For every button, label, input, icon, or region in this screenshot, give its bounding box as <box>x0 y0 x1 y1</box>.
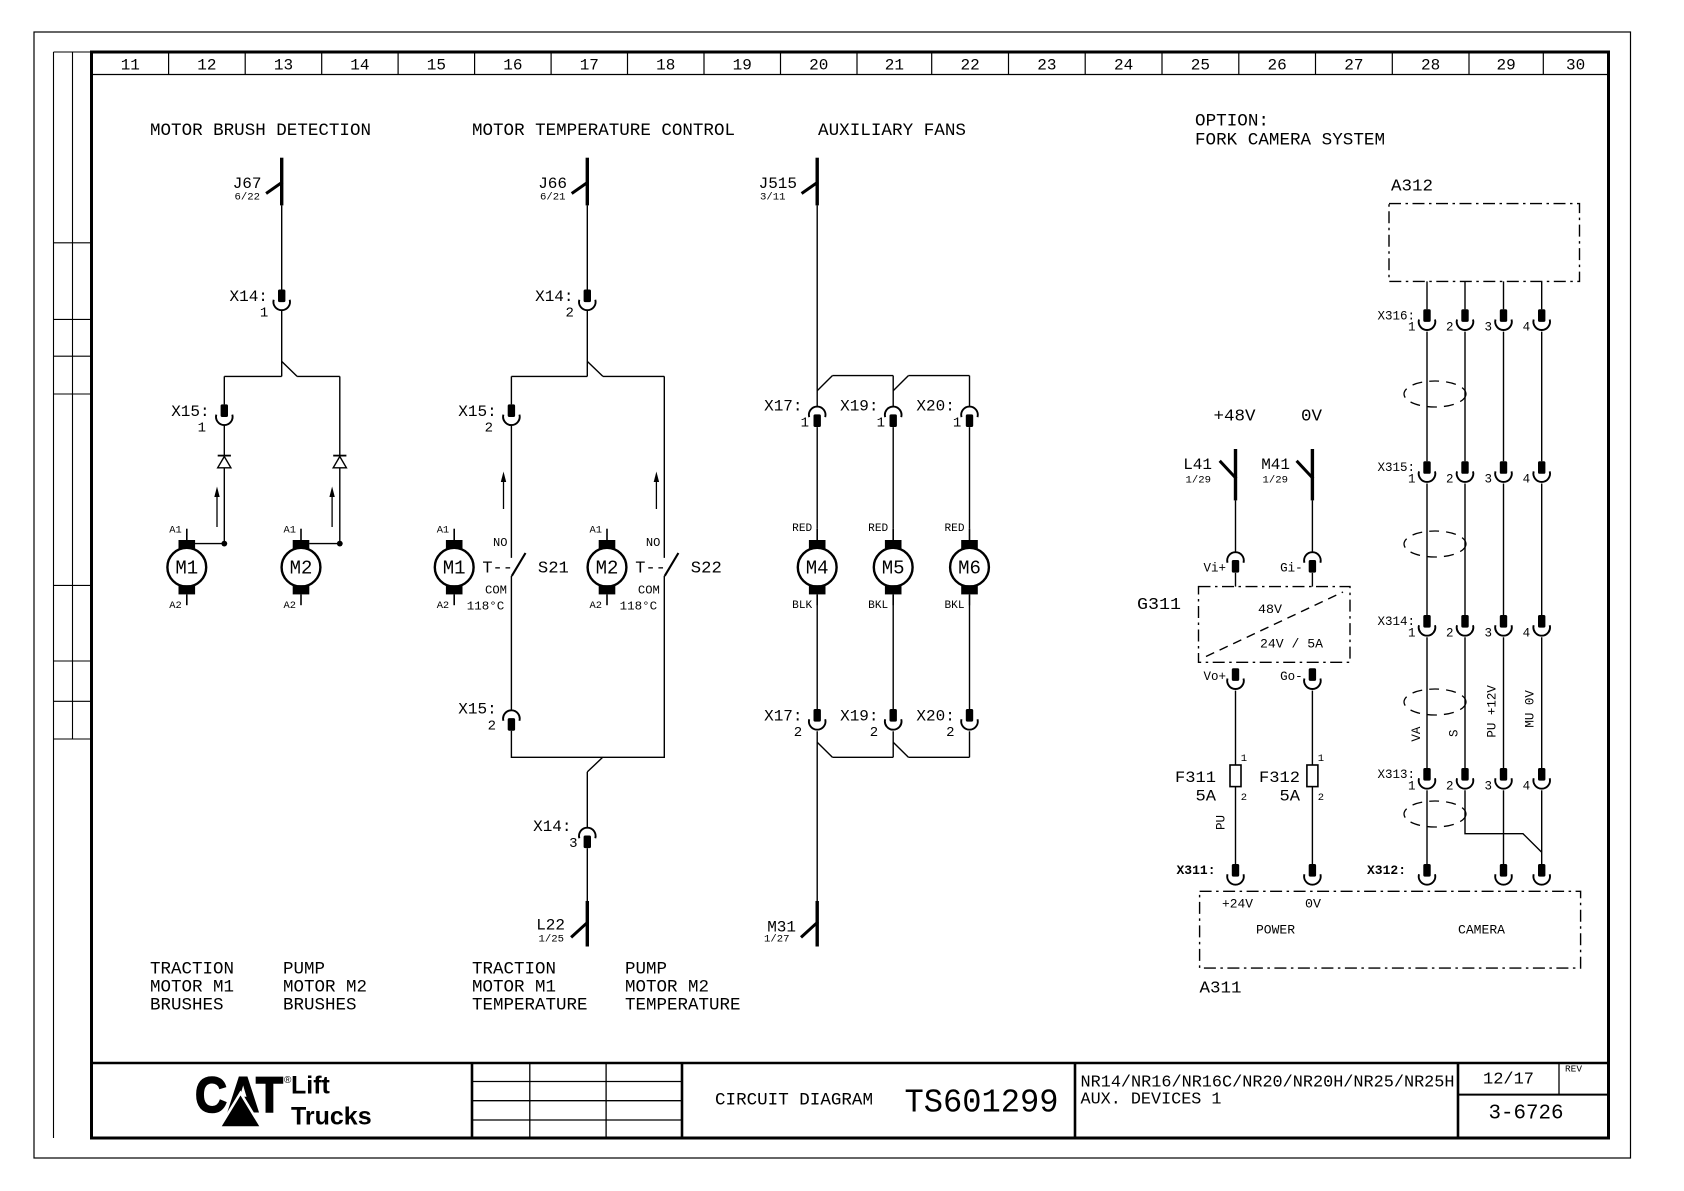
wire VA to X312 <box>1426 790 1428 864</box>
svg-text:A2: A2 <box>437 600 450 612</box>
svg-text:3: 3 <box>1484 473 1492 487</box>
wire fan motor to X17:2 <box>816 605 818 709</box>
wire PU to X312 <box>1503 790 1505 864</box>
diode V2 (M2 branch) <box>333 456 346 468</box>
svg-text:S22: S22 <box>691 559 722 578</box>
motor M1 <box>167 529 206 606</box>
twisted pair mark 3 <box>1404 689 1466 715</box>
svg-text:TEMPERATURE: TEMPERATURE <box>625 996 741 1016</box>
svg-text:FORK CAMERA SYSTEM: FORK CAMERA SYSTEM <box>1195 131 1385 151</box>
svg-text:OPTION:: OPTION: <box>1195 112 1269 132</box>
svg-text:2: 2 <box>794 725 802 741</box>
svg-text:A312: A312 <box>1391 177 1433 196</box>
caption traction motor m1 brushes <box>150 960 234 1016</box>
label X15:2 (top) <box>458 403 496 437</box>
svg-text:14: 14 <box>350 57 369 75</box>
svg-text:J67: J67 <box>233 175 262 193</box>
wire F311 to X311 <box>1235 787 1237 864</box>
dc converter G311 (dash-dot box) <box>1199 587 1351 663</box>
wire fan motor to X20:2 <box>969 605 971 709</box>
fuse F312 <box>1307 765 1318 787</box>
svg-text:PU +12V: PU +12V <box>1486 685 1500 738</box>
wire A312 pin 1 <box>1426 281 1428 309</box>
twisted pair mark 2 <box>1404 531 1466 557</box>
label X19:2 <box>840 707 878 741</box>
connector X315 <box>1419 461 1550 482</box>
svg-text:TS601299: TS601299 <box>905 1085 1059 1122</box>
svg-text:4: 4 <box>1523 779 1531 793</box>
svg-text:2: 2 <box>1446 626 1454 640</box>
svg-text:L41: L41 <box>1183 456 1212 474</box>
svg-text:1: 1 <box>260 306 268 322</box>
section title OPTION: FORK CAMERA SYSTEM <box>1195 112 1385 151</box>
wire A312 pin 4 <box>1541 281 1543 309</box>
wire X314-X313 1 <box>1426 637 1428 768</box>
svg-text:3-6726: 3-6726 <box>1489 1103 1564 1126</box>
label X14:2 <box>535 288 574 322</box>
wire X315-X314 1 <box>1426 484 1428 616</box>
caption pump motor m2 brushes <box>283 960 367 1016</box>
connector Go- <box>1304 668 1321 689</box>
svg-text:0V: 0V <box>1305 898 1322 912</box>
svg-text:MU 0V: MU 0V <box>1524 690 1538 728</box>
current arrow (S22 branch) <box>654 472 659 510</box>
wire branch jog <box>282 361 297 376</box>
wire J515 down to X17:1 <box>816 205 818 406</box>
svg-text:AUX. DEVICES 1: AUX. DEVICES 1 <box>1081 1091 1222 1110</box>
svg-text:S: S <box>1448 729 1462 737</box>
wire M41 to Gi- <box>1311 500 1313 552</box>
connector L22 <box>571 901 588 947</box>
svg-text:X15:: X15: <box>458 403 496 421</box>
wire fan branch 3 down <box>969 376 971 407</box>
wire X316-X315 3 <box>1503 332 1505 462</box>
svg-text:M1: M1 <box>175 558 198 580</box>
connector M31 <box>801 901 818 947</box>
wire X315-X314 2 <box>1464 484 1466 616</box>
svg-text:21: 21 <box>885 57 904 75</box>
wire Gi- to G311 <box>1311 573 1313 587</box>
connector X20:1 <box>961 407 978 427</box>
connector X17:2 <box>809 709 826 730</box>
svg-text:4: 4 <box>1523 321 1531 335</box>
wire left branch down <box>223 376 225 404</box>
svg-text:MOTOR TEMPERATURE CONTROL: MOTOR TEMPERATURE CONTROL <box>472 121 735 141</box>
svg-text:NO: NO <box>646 536 661 550</box>
label X14:1 <box>229 288 268 322</box>
wire X314-X313 2 <box>1464 637 1466 768</box>
column number header row <box>92 52 1608 75</box>
wire Vo+ to F311 <box>1235 691 1237 765</box>
wire X15:2 to S21 <box>510 425 512 558</box>
svg-text:2: 2 <box>565 306 573 322</box>
svg-text:1: 1 <box>1408 626 1416 640</box>
svg-text:4: 4 <box>1523 626 1531 640</box>
svg-text:A1: A1 <box>590 525 603 537</box>
label X20:2 <box>916 707 954 741</box>
wire X17:1 to fan motor <box>816 427 818 529</box>
connector Gi- <box>1304 552 1321 572</box>
svg-text:TRACTION: TRACTION <box>472 960 556 980</box>
current arrow (M2 branch) <box>329 487 334 528</box>
fan motor M6 <box>950 529 989 606</box>
svg-text:A2: A2 <box>590 600 603 612</box>
svg-text:CIRCUIT DIAGRAM: CIRCUIT DIAGRAM <box>715 1090 873 1110</box>
svg-text:G311: G311 <box>1137 595 1181 614</box>
wire rejoin jog <box>587 757 602 772</box>
camera unit A311 (dash-dot box) <box>1200 891 1581 968</box>
connector J515 <box>802 158 818 206</box>
svg-text:24V / 5A: 24V / 5A <box>1260 637 1324 651</box>
svg-text:X15:: X15: <box>171 403 209 421</box>
svg-text:2: 2 <box>1241 792 1247 804</box>
svg-text:+24V: +24V <box>1222 898 1254 912</box>
fan return bus 1 <box>832 756 893 758</box>
svg-text:A1: A1 <box>284 525 297 537</box>
CAT Lift Trucks logo <box>195 1067 372 1131</box>
svg-text:Vi+: Vi+ <box>1203 562 1226 576</box>
label X15:1 <box>171 403 209 437</box>
svg-text:Gi-: Gi- <box>1280 562 1303 576</box>
svg-text:POWER: POWER <box>1256 924 1296 938</box>
thermal switch S21 <box>467 536 569 614</box>
label X15:2 (bottom) <box>458 701 496 735</box>
connector M41 <box>1297 449 1314 500</box>
label X17:1 <box>764 397 809 431</box>
connector X14:3 <box>579 828 596 848</box>
svg-text:M1: M1 <box>443 558 466 580</box>
wire M2 A1 to junction <box>309 543 340 545</box>
svg-text:TEMPERATURE: TEMPERATURE <box>472 996 588 1016</box>
wire X314-X313 3 <box>1503 637 1505 768</box>
wire X15:2 bottom corner <box>511 576 664 757</box>
svg-text:Trucks: Trucks <box>291 1103 372 1131</box>
fuse F311 <box>1230 765 1241 787</box>
svg-text:17: 17 <box>580 57 599 75</box>
svg-text:Vo+: Vo+ <box>1203 670 1226 684</box>
svg-text:A2: A2 <box>284 600 297 612</box>
wire fan motor to X19:2 <box>892 605 894 709</box>
svg-text:3: 3 <box>1484 779 1492 793</box>
wire J67 to X14:1 <box>281 205 283 289</box>
twisted pair mark 4 <box>1404 801 1466 827</box>
junction dot (M2 branch) <box>337 541 343 547</box>
svg-text:X20:: X20: <box>916 397 954 415</box>
wire right branch to S22 <box>663 376 665 558</box>
svg-text:COM: COM <box>638 584 660 598</box>
svg-text:M41: M41 <box>1261 456 1290 474</box>
svg-text:X20:: X20: <box>916 707 954 725</box>
svg-text:22: 22 <box>960 57 979 75</box>
svg-text:A311: A311 <box>1200 978 1242 997</box>
svg-text:13: 13 <box>274 57 293 75</box>
svg-text:118°C: 118°C <box>467 600 505 614</box>
fan return bus 2 <box>908 756 969 758</box>
connector X19:2 <box>885 709 902 730</box>
svg-text:27: 27 <box>1344 57 1363 75</box>
connector X15:2 (top) <box>503 404 520 425</box>
fan motor M4 <box>798 529 837 606</box>
fan bus 1 <box>832 375 893 377</box>
label F311 5A <box>1175 753 1247 805</box>
wire X14:1 down <box>281 310 283 376</box>
svg-text:VA: VA <box>1410 726 1424 742</box>
svg-text:0V: 0V <box>1301 408 1323 427</box>
wire A312 pin 3 <box>1503 281 1505 309</box>
connector X14:2 <box>579 290 596 311</box>
svg-text:48V: 48V <box>1258 603 1283 617</box>
svg-text:6/21: 6/21 <box>540 192 566 204</box>
svg-text:3: 3 <box>1484 321 1492 335</box>
caption traction motor m1 temperature <box>472 960 588 1016</box>
motor M2 (temperature) <box>588 529 627 606</box>
twisted pair mark 1 <box>1404 381 1466 407</box>
svg-text:2: 2 <box>488 718 496 734</box>
wire J66 to X14:2 <box>586 205 588 289</box>
svg-text:CAMERA: CAMERA <box>1458 924 1506 938</box>
svg-text:J66: J66 <box>538 175 567 193</box>
svg-text:BRUSHES: BRUSHES <box>283 996 357 1016</box>
thermal switch S22 <box>620 536 722 614</box>
svg-text:X14:: X14: <box>533 818 571 836</box>
svg-text:20: 20 <box>809 57 828 75</box>
wire to X14:3 <box>586 772 588 828</box>
svg-text:30: 30 <box>1566 57 1585 75</box>
svg-text:29: 29 <box>1497 57 1516 75</box>
svg-text:23: 23 <box>1037 57 1056 75</box>
svg-text:16: 16 <box>503 57 522 75</box>
wire X14:3 to L22 <box>586 848 588 901</box>
svg-text:MOTOR M1: MOTOR M1 <box>150 978 234 998</box>
wire X316-X315 2 <box>1464 332 1466 462</box>
title block grid <box>92 1063 1609 1138</box>
wire X315-X314 4 <box>1541 484 1543 616</box>
svg-text:BLK: BLK <box>792 600 812 612</box>
wire A312 pin 2 <box>1464 281 1466 309</box>
svg-text:3: 3 <box>569 836 577 852</box>
wire L41 to Vi+ <box>1235 500 1237 552</box>
connector X313 <box>1419 768 1550 789</box>
svg-text:A1: A1 <box>437 525 450 537</box>
svg-text:MOTOR M1: MOTOR M1 <box>472 978 556 998</box>
connector X19:1 <box>885 407 902 427</box>
svg-text:Lift: Lift <box>291 1072 331 1100</box>
svg-text:RED: RED <box>868 523 888 535</box>
connector Vo+ <box>1227 668 1244 689</box>
wire X15:1 to diode <box>223 425 225 456</box>
fan bus 2 <box>908 375 969 377</box>
svg-text:X19:: X19: <box>840 707 878 725</box>
connector X14:1 <box>273 290 290 311</box>
wire X14:2 down <box>586 310 588 376</box>
label X313 <box>1377 768 1530 793</box>
svg-text:2: 2 <box>946 725 954 741</box>
wire diode to M2 junction <box>339 468 341 543</box>
svg-text:2: 2 <box>485 420 493 436</box>
current arrow (S21 branch) <box>501 472 506 510</box>
wire branch horizontal <box>224 375 339 377</box>
label X17:2 <box>764 707 802 741</box>
label F312 5A <box>1259 753 1324 805</box>
svg-text:3: 3 <box>1484 626 1492 640</box>
svg-text:4: 4 <box>1523 473 1531 487</box>
svg-text:BKL: BKL <box>868 600 888 612</box>
connector J67 <box>266 158 282 206</box>
diode V1 (M1 branch) <box>218 456 231 468</box>
wire right branch down <box>339 376 341 455</box>
fan motor M5 <box>874 529 913 606</box>
svg-text:PUMP: PUMP <box>283 960 325 980</box>
connector X314 <box>1419 615 1550 636</box>
connector X20:2 <box>961 709 978 730</box>
svg-text:18: 18 <box>656 57 675 75</box>
svg-text:BKL: BKL <box>945 600 965 612</box>
svg-text:11: 11 <box>121 57 140 75</box>
svg-text:M4: M4 <box>806 558 829 580</box>
svg-text:L22: L22 <box>536 917 565 935</box>
svg-text:26: 26 <box>1268 57 1287 75</box>
svg-text:RED: RED <box>945 523 965 535</box>
wire Vi+ to G311 <box>1235 573 1237 587</box>
connector L41 <box>1220 449 1237 500</box>
svg-text:1: 1 <box>1408 779 1416 793</box>
svg-text:NO: NO <box>493 536 508 550</box>
svg-text:1/25: 1/25 <box>539 934 565 946</box>
wire M1 A1 to junction <box>195 543 224 545</box>
wire fan return branch 2 <box>892 731 894 757</box>
wire F312 to X311 <box>1311 787 1313 864</box>
connector Vi+ <box>1227 552 1244 572</box>
svg-text:12/17: 12/17 <box>1483 1071 1534 1090</box>
svg-text:REV: REV <box>1565 1065 1583 1075</box>
motor M1 (temperature) <box>435 529 474 606</box>
svg-text:24: 24 <box>1114 57 1133 75</box>
svg-text:MOTOR M2: MOTOR M2 <box>283 978 367 998</box>
wire X19:1 to fan motor <box>892 427 894 529</box>
svg-text:15: 15 <box>427 57 446 75</box>
connector X311 <box>1227 864 1320 885</box>
svg-text:AUXILIARY FANS: AUXILIARY FANS <box>818 121 966 141</box>
svg-text:A2: A2 <box>169 600 182 612</box>
wire diode to M1 junction <box>223 468 225 543</box>
wire left to X15:2 <box>510 376 512 404</box>
label X20:1 <box>916 397 961 431</box>
wire branch horizontal 2 <box>511 375 664 377</box>
svg-text:2: 2 <box>1446 473 1454 487</box>
fan return jog 1 <box>817 742 832 757</box>
wire fan return branch 3 <box>969 731 971 757</box>
wire branch jog 2 <box>587 361 603 376</box>
connector X17:1 <box>809 407 826 427</box>
svg-text:25: 25 <box>1191 57 1210 75</box>
svg-text:BRUSHES: BRUSHES <box>150 996 224 1016</box>
fan bus tap jog 1 <box>817 376 832 391</box>
svg-text:J515: J515 <box>759 175 797 193</box>
svg-text:2: 2 <box>1446 779 1454 793</box>
svg-text:M2: M2 <box>596 558 619 580</box>
label X314 <box>1377 615 1530 640</box>
svg-text:T--: T-- <box>482 559 513 578</box>
wire X314-X313 4 <box>1541 637 1543 768</box>
svg-text:118°C: 118°C <box>620 600 658 614</box>
svg-text:F311: F311 <box>1175 769 1216 787</box>
wire X20:1 to fan motor <box>969 427 971 529</box>
svg-text:COM: COM <box>485 584 507 598</box>
svg-text:3/11: 3/11 <box>760 192 786 204</box>
connector J66 <box>572 158 588 206</box>
svg-text:2: 2 <box>1318 792 1324 804</box>
connector X312 <box>1419 864 1550 885</box>
svg-text:1: 1 <box>1318 753 1324 765</box>
svg-text:X17:: X17: <box>764 397 802 415</box>
svg-text:RED: RED <box>792 523 812 535</box>
motor M2 <box>282 529 321 606</box>
svg-text:MOTOR BRUSH DETECTION: MOTOR BRUSH DETECTION <box>150 121 371 141</box>
svg-text:X311:: X311: <box>1176 863 1215 878</box>
svg-text:PUMP: PUMP <box>625 960 667 980</box>
svg-text:Go-: Go- <box>1280 670 1303 684</box>
wire S bend to X312 <box>1465 790 1542 852</box>
svg-text:F312: F312 <box>1259 769 1300 787</box>
svg-text:6/22: 6/22 <box>235 192 261 204</box>
svg-text:1: 1 <box>953 416 961 432</box>
svg-text:M2: M2 <box>290 558 313 580</box>
wire Go- to F312 <box>1311 691 1313 765</box>
svg-text:1: 1 <box>801 416 809 432</box>
wire fan branch 2 down <box>892 376 894 407</box>
svg-text:X19:: X19: <box>840 397 878 415</box>
svg-text:19: 19 <box>733 57 752 75</box>
monitor unit A312 (dash-dot box) <box>1389 204 1580 282</box>
connector X316 <box>1419 309 1550 330</box>
wire X316-X315 1 <box>1426 332 1428 462</box>
connector X15:1 <box>216 404 233 425</box>
wire MU to X312 <box>1541 790 1543 864</box>
svg-text:MOTOR M2: MOTOR M2 <box>625 978 709 998</box>
fan bus tap jog 2 <box>893 376 908 391</box>
svg-text:X14:: X14: <box>535 288 573 306</box>
label X316 <box>1377 309 1530 334</box>
svg-text:+48V: +48V <box>1214 408 1257 427</box>
wire fan return main <box>816 731 818 901</box>
caption pump motor m2 temperature <box>625 960 741 1016</box>
svg-text:M6: M6 <box>958 558 981 580</box>
svg-text:X312:: X312: <box>1367 863 1406 878</box>
svg-text:A1: A1 <box>169 525 182 537</box>
svg-text:X15:: X15: <box>458 701 496 719</box>
wire X316-X315 4 <box>1541 332 1543 462</box>
svg-text:5A: 5A <box>1196 787 1217 805</box>
svg-text:TRACTION: TRACTION <box>150 960 234 980</box>
svg-text:5A: 5A <box>1280 787 1301 805</box>
svg-text:2: 2 <box>870 725 878 741</box>
svg-text:1/27: 1/27 <box>764 934 790 946</box>
svg-text:X17:: X17: <box>764 707 802 725</box>
svg-text:PU: PU <box>1215 815 1229 830</box>
svg-text:1: 1 <box>1408 473 1416 487</box>
svg-text:2: 2 <box>1446 321 1454 335</box>
svg-text:12: 12 <box>197 57 216 75</box>
svg-text:X14:: X14: <box>229 288 267 306</box>
svg-text:1: 1 <box>1408 321 1416 335</box>
svg-text:1/29: 1/29 <box>1263 475 1289 487</box>
svg-text:1: 1 <box>198 420 206 436</box>
wire X315-X314 3 <box>1503 484 1505 616</box>
svg-text:T--: T-- <box>635 559 666 578</box>
junction dot (M1 branch) <box>221 541 227 547</box>
connector X15:2 (bottom) <box>503 710 520 730</box>
fan return jog 2 <box>893 742 908 757</box>
